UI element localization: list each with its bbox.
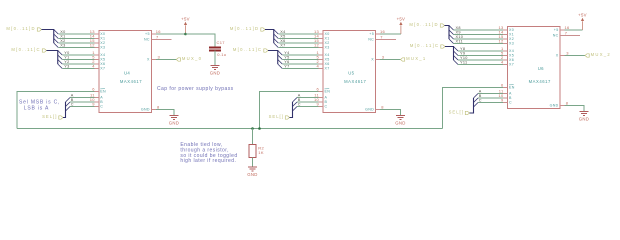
bus entry SELC U4: [66, 107, 71, 112]
svg-text:X4: X4: [100, 53, 105, 57]
bus entry X2 U4: [54, 39, 59, 44]
wire SELB U6: [478, 97, 503, 99]
pin 1 stub U4: [94, 54, 99, 56]
svg-text:C17: C17: [217, 40, 226, 45]
svg-text:X2: X2: [509, 37, 514, 41]
svg-text:X3: X3: [100, 46, 105, 50]
wire Y10 U6: [458, 59, 503, 61]
wire Y6 U5: [282, 63, 318, 65]
wire Y9 U6: [458, 55, 503, 57]
pin 3 stub U6: [560, 55, 565, 57]
pin 1 stub U6: [503, 50, 508, 52]
wire X4 U5: [278, 33, 318, 35]
pin B stub U4: [94, 101, 99, 103]
pin C stub U4: [94, 106, 99, 108]
pin B stub U5: [319, 101, 324, 103]
svg-text:+5: +5: [554, 28, 559, 32]
junction resistor on EN rail: [251, 127, 254, 130]
pin 15 stub U5: [319, 42, 324, 44]
bus entry X11 U6: [449, 39, 454, 44]
bus SEL U6: [470, 98, 474, 113]
resistor R2: [249, 144, 256, 157]
svg-text:A: A: [298, 94, 301, 98]
pin 8 stub U4: [151, 109, 156, 111]
svg-text:A: A: [325, 96, 328, 100]
svg-text:MUX_0: MUX_0: [182, 56, 202, 61]
wire Y0 U4: [62, 54, 94, 56]
svg-text:X7: X7: [509, 63, 514, 67]
svg-text:SEL[]: SEL[]: [449, 110, 464, 115]
pin 16 stub U6: [560, 29, 565, 31]
wire X9 U6: [454, 34, 504, 36]
pin 16 stub U4: [151, 33, 156, 35]
svg-text:12: 12: [90, 43, 96, 48]
pin C stub U5: [319, 106, 324, 108]
svg-text:X0: X0: [325, 32, 330, 36]
svg-text:GND: GND: [550, 104, 559, 108]
wire X8 U6: [454, 29, 504, 31]
pin 12 stub U5: [319, 47, 324, 49]
bus entry Y0 U4: [58, 51, 63, 56]
svg-text:GND: GND: [141, 108, 150, 112]
svg-text:M[0..11]D: M[0..11]D: [409, 22, 439, 27]
bus entry X3 U4: [54, 43, 59, 48]
bus entry Y3 U4: [58, 64, 63, 69]
wire MUX_2 U6: [565, 55, 586, 57]
wire Y11 U6: [458, 64, 503, 66]
wire SELC U6: [478, 102, 503, 104]
svg-text:U6: U6: [538, 66, 544, 71]
svg-text:MUX_2: MUX_2: [591, 52, 611, 57]
wire SELB U4: [70, 101, 94, 103]
svg-text:B: B: [71, 98, 74, 102]
wire MUX_1 U5: [380, 59, 401, 61]
wire SELA U5: [297, 97, 319, 99]
svg-text:X0: X0: [509, 28, 514, 32]
svg-text:GND: GND: [395, 121, 405, 126]
wire X10 U6: [454, 38, 504, 40]
pin 4 stub U4: [94, 68, 99, 70]
svg-text:X4: X4: [325, 53, 330, 57]
wire X6 U5: [278, 42, 318, 44]
svg-text:Y10: Y10: [460, 56, 468, 60]
wire SELA U6: [478, 93, 503, 95]
svg-text:X7: X7: [325, 67, 330, 71]
wire SELA U4: [70, 97, 94, 99]
bus entry X1 U4: [54, 34, 59, 39]
svg-text:GND: GND: [169, 121, 179, 126]
pin 3 stub U4: [151, 59, 156, 61]
wire R2 to ground: [252, 158, 254, 167]
svg-text:Sel MSB is C,: Sel MSB is C,: [19, 99, 60, 105]
wire X7 U5: [278, 47, 318, 49]
svg-text:Y11: Y11: [460, 61, 467, 65]
pin 3 stub U5: [376, 59, 381, 61]
bus entry Y1 U4: [58, 55, 63, 60]
bus entry Y2 U4: [58, 60, 63, 65]
svg-text:GND: GND: [210, 71, 220, 76]
svg-text:B: B: [325, 100, 328, 104]
IC U4 MAX4617 body: [99, 30, 152, 112]
pin 4 stub U5: [319, 68, 324, 70]
bus M[0..11]D U4: [42, 30, 54, 44]
svg-text:16: 16: [380, 29, 386, 34]
svg-text:M[0..11]C: M[0..11]C: [233, 47, 263, 52]
bus entry X7 U5: [274, 43, 279, 48]
ground C1 GND: [211, 66, 220, 70]
svg-text:12: 12: [498, 39, 504, 44]
svg-text:Y2: Y2: [64, 60, 69, 64]
svg-text:X8: X8: [456, 26, 461, 30]
bus entry Y10 U6: [454, 56, 459, 61]
bus entry Y5 U5: [278, 55, 283, 60]
svg-text:+5: +5: [145, 32, 150, 36]
svg-text:X6: X6: [325, 62, 330, 66]
svg-text:+5V: +5V: [578, 12, 587, 17]
svg-text:NC: NC: [144, 37, 150, 41]
svg-text:Y9: Y9: [460, 52, 465, 56]
svg-text:X0: X0: [60, 30, 65, 34]
pin C stub U6: [503, 102, 508, 104]
bus entry SELB U4: [66, 102, 71, 107]
bus M[0..11]D U5: [265, 30, 274, 44]
svg-text:B: B: [100, 100, 103, 104]
svg-text:X2: X2: [100, 41, 105, 45]
svg-text:X9: X9: [456, 31, 461, 35]
hierarchical label MUX_0 output label U4: [176, 58, 180, 61]
bus entry SELB U5: [293, 102, 298, 107]
wire EN rail to R2: [252, 129, 254, 145]
svg-text:X: X: [556, 54, 559, 58]
svg-text:M[0..11]D: M[0..11]D: [230, 26, 260, 31]
svg-text:X: X: [147, 58, 150, 62]
svg-text:LSB is A: LSB is A: [24, 106, 49, 112]
bus M[0..11]C U5: [268, 51, 278, 65]
wire EN U5 to rail: [260, 92, 319, 129]
svg-text:16: 16: [564, 25, 570, 30]
svg-text:Y0: Y0: [64, 51, 69, 55]
svg-text:X6: X6: [509, 58, 514, 62]
hierarchical label M[0..11]D bus label U6: [440, 24, 444, 27]
wire SELC U4: [70, 106, 94, 108]
bus SEL U4: [63, 102, 66, 118]
svg-text:X0: X0: [100, 32, 105, 36]
svg-text:X5: X5: [280, 35, 285, 39]
pin 1 stub U5: [319, 54, 324, 56]
pin 13 stub U4: [94, 33, 99, 35]
wire GND U4: [156, 110, 174, 116]
svg-text:MAX4617: MAX4617: [344, 79, 366, 84]
pin EN stub U6: [503, 87, 508, 89]
wire EN rail: [17, 128, 443, 130]
wire GND U6: [565, 106, 585, 112]
ground U6 GND: [580, 112, 589, 116]
svg-text:X2: X2: [60, 39, 65, 43]
pin 13 stub U5: [319, 33, 324, 35]
pin 14 stub U4: [94, 38, 99, 40]
svg-text:C: C: [479, 99, 482, 103]
bus entry SELA U4: [66, 98, 71, 103]
svg-text:X5: X5: [325, 58, 330, 62]
svg-text:+5V: +5V: [181, 16, 190, 21]
svg-text:NC: NC: [368, 37, 374, 41]
pin 13 stub U6: [503, 29, 508, 31]
pin B stub U6: [503, 97, 508, 99]
pin 15 stub U4: [94, 42, 99, 44]
svg-text:X6: X6: [100, 62, 105, 66]
wire X2 U4: [58, 42, 94, 44]
svg-text:+5: +5: [369, 32, 374, 36]
wire EN U4 to rail: [17, 92, 94, 129]
svg-text:X2: X2: [325, 41, 330, 45]
wire Y7 U5: [282, 68, 318, 70]
svg-text:X3: X3: [325, 46, 330, 50]
wire X5 U5: [278, 38, 318, 40]
wire X0 U4: [58, 33, 94, 35]
hierarchical label M[0..11]C bus label U5: [264, 49, 268, 52]
bus entry Y6 U5: [278, 60, 283, 65]
svg-text:X5: X5: [509, 54, 514, 58]
svg-text:A: A: [100, 96, 103, 100]
svg-text:SEL[]: SEL[]: [42, 114, 57, 119]
svg-text:M[0..11]C: M[0..11]C: [410, 43, 440, 48]
svg-text:SEL[]: SEL[]: [269, 114, 284, 119]
bus entry Y9 U6: [454, 51, 459, 56]
svg-text:U4: U4: [124, 71, 130, 76]
ground U4 GND: [170, 116, 179, 120]
bus entry SELC U6: [474, 103, 479, 108]
svg-text:Y5: Y5: [284, 56, 289, 60]
wire MUX_0 U4: [156, 59, 177, 61]
bus entry X5 U5: [274, 34, 279, 39]
pin 12 stub U4: [94, 47, 99, 49]
wire X1 U4: [58, 38, 94, 40]
svg-text:high later if required.: high later if required.: [180, 158, 236, 164]
pin EN stub U4: [94, 91, 99, 93]
ground R2 GND: [248, 167, 257, 171]
bus entry Y7 U5: [278, 64, 283, 69]
svg-text:X10: X10: [456, 35, 464, 39]
svg-text:Y7: Y7: [284, 65, 289, 69]
capacitor C17: [209, 48, 221, 51]
svg-text:1K: 1K: [258, 150, 264, 155]
wire +5V U4: [156, 33, 186, 35]
svg-text:GND: GND: [579, 117, 589, 122]
hierarchical label M[0..11]C bus label U4: [42, 49, 46, 52]
svg-text:M[0..11]C: M[0..11]C: [11, 47, 41, 52]
svg-text:X1: X1: [100, 37, 105, 41]
bus entry X4 U5: [274, 30, 279, 35]
wire SELB U5: [297, 101, 319, 103]
svg-text:C: C: [509, 101, 512, 105]
svg-text:16: 16: [156, 29, 162, 34]
svg-text:X1: X1: [509, 33, 514, 37]
svg-text:X4: X4: [509, 49, 514, 53]
bus entry X8 U6: [449, 26, 454, 31]
bus entry Y4 U5: [278, 51, 283, 56]
svg-text:MAX4617: MAX4617: [529, 79, 551, 84]
svg-text:GND: GND: [247, 172, 257, 177]
pin 5 stub U6: [503, 55, 508, 57]
svg-text:C: C: [71, 103, 74, 107]
bus entry Y8 U6: [454, 47, 459, 52]
pin 5 stub U4: [94, 59, 99, 61]
bus entry X0 U4: [54, 30, 59, 35]
IC U5 MAX4617 body: [323, 30, 376, 112]
pin 8 stub U6: [560, 105, 565, 107]
svg-text:Y8: Y8: [460, 47, 465, 51]
junction +5V U4: [184, 33, 187, 36]
svg-text:NC: NC: [553, 33, 559, 37]
svg-text:B: B: [298, 98, 301, 102]
pin 16 stub U5: [376, 33, 381, 35]
wire X3 U4: [58, 47, 94, 49]
svg-text:EN: EN: [509, 86, 515, 90]
svg-text:Y3: Y3: [64, 65, 69, 69]
pin A stub U5: [319, 97, 324, 99]
bus entry X10 U6: [449, 35, 454, 40]
pin 8 stub U5: [376, 109, 381, 111]
svg-text:A: A: [509, 92, 512, 96]
IC U6 MAX4617 body: [508, 26, 561, 108]
pin 4 stub U6: [503, 64, 508, 66]
hierarchical label M[0..11]D bus label U4: [37, 28, 41, 31]
hierarchical label M[0..11]D bus label U5: [261, 28, 265, 31]
svg-text:C: C: [298, 103, 301, 107]
svg-text:C: C: [325, 105, 328, 109]
bus entry Y11 U6: [454, 60, 459, 65]
svg-text:MAX4617: MAX4617: [120, 79, 142, 84]
wire +5V U5: [380, 33, 401, 35]
bus entry SELA U5: [293, 98, 298, 103]
wire SELC U5: [297, 106, 319, 108]
svg-text:A: A: [71, 94, 74, 98]
svg-text:X11: X11: [456, 40, 463, 44]
svg-text:X7: X7: [100, 67, 105, 71]
wire Y8 U6: [458, 50, 503, 52]
svg-text:B: B: [479, 94, 482, 98]
pin EN stub U5: [319, 91, 324, 93]
pin 14 stub U5: [319, 38, 324, 40]
svg-text:X1: X1: [325, 37, 330, 41]
wire GND U5: [380, 110, 401, 116]
svg-text:Cap for power supply bypass: Cap for power supply bypass: [157, 86, 234, 92]
bus M[0..11]C U4: [47, 51, 58, 65]
svg-text:X: X: [371, 58, 374, 62]
pin 2 stub U6: [503, 59, 508, 61]
pin 15 stub U6: [503, 38, 508, 40]
wire Y3 U4: [62, 68, 94, 70]
wire Y5 U5: [282, 59, 318, 61]
svg-text:Y6: Y6: [284, 60, 289, 64]
svg-text:Y4: Y4: [284, 51, 289, 55]
pin 7 NC stub U6: [560, 34, 580, 36]
svg-text:X7: X7: [280, 44, 285, 48]
svg-text:Y1: Y1: [64, 56, 69, 60]
svg-text:EN: EN: [100, 90, 106, 94]
ground U5 GND: [396, 116, 405, 120]
bus M[0..11]C U6: [445, 47, 454, 61]
svg-text:0.1u: 0.1u: [217, 52, 226, 57]
svg-text:X5: X5: [100, 58, 105, 62]
wire X11 U6: [454, 43, 504, 45]
wire EN U6 to rail: [443, 88, 504, 129]
hierarchical label SEL bus label U6: [465, 111, 469, 114]
svg-text:U5: U5: [348, 71, 354, 76]
svg-text:12: 12: [314, 43, 320, 48]
wire Y4 U5: [282, 54, 318, 56]
power +5V U5: [399, 22, 402, 34]
wire C1 to ground: [214, 50, 216, 65]
svg-text:X6: X6: [280, 39, 285, 43]
svg-text:M[0..11]D: M[0..11]D: [6, 26, 36, 31]
pin 2 stub U4: [94, 63, 99, 65]
bus entry SELC U5: [293, 107, 298, 112]
svg-text:X3: X3: [509, 42, 514, 46]
svg-text:MUX_1: MUX_1: [406, 56, 426, 61]
svg-text:+5V: +5V: [397, 16, 406, 21]
pin 7 NC stub U5: [376, 38, 396, 40]
pin 5 stub U5: [319, 59, 324, 61]
pin 14 stub U6: [503, 34, 508, 36]
wire Y1 U4: [62, 59, 94, 61]
pin 7 NC stub U4: [151, 38, 171, 40]
hierarchical label MUX_2 output label U6: [585, 54, 589, 57]
wire +5V to C1: [186, 34, 216, 47]
bus entry SELB U6: [474, 98, 479, 103]
bus entry SELA U6: [474, 94, 479, 99]
bus SEL U5: [290, 102, 293, 118]
svg-text:A: A: [479, 90, 482, 94]
wire Y2 U4: [62, 63, 94, 65]
svg-text:X3: X3: [60, 44, 65, 48]
svg-text:EN: EN: [325, 90, 331, 94]
svg-text:X4: X4: [280, 30, 285, 34]
svg-text:X1: X1: [60, 35, 65, 39]
hierarchical label M[0..11]C bus label U6: [441, 45, 445, 48]
pin A stub U6: [503, 93, 508, 95]
bus entry X9 U6: [449, 30, 454, 35]
wire +5V U6: [565, 29, 583, 31]
bus M[0..11]D U6: [445, 26, 450, 40]
pin 12 stub U6: [503, 43, 508, 45]
bus entry X6 U5: [274, 39, 279, 44]
svg-text:C: C: [100, 105, 103, 109]
svg-text:B: B: [509, 96, 512, 100]
hierarchical label SEL bus label U4: [59, 116, 63, 119]
junction U5 EN on rail: [258, 127, 261, 130]
hierarchical label SEL bus label U5: [285, 116, 289, 119]
pin A stub U4: [94, 97, 99, 99]
svg-text:GND: GND: [365, 108, 374, 112]
power +5V U4: [184, 22, 187, 34]
pin 2 stub U5: [319, 63, 324, 65]
hierarchical label MUX_1 output label U5: [401, 58, 405, 61]
power +5V U6: [581, 18, 584, 30]
